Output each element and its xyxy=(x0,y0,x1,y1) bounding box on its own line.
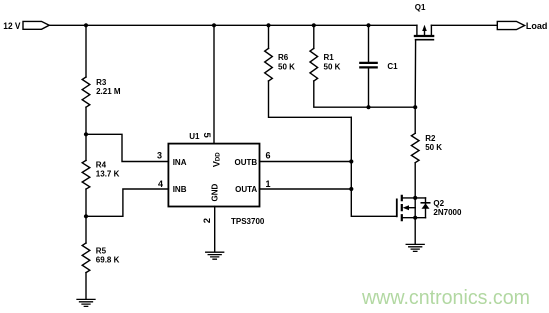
wire R1 top lead xyxy=(313,25,315,48)
wire C1 top lead xyxy=(368,25,370,62)
wire Q2 vertical drain-source xyxy=(414,198,416,218)
svg-text:R1: R1 xyxy=(324,53,335,62)
svg-text:50 K: 50 K xyxy=(324,63,341,72)
ground below U1 pin 2 xyxy=(206,252,224,259)
wire R3 bottom lead xyxy=(85,107,87,134)
resistor R2 xyxy=(411,133,419,162)
wire VDD pin 5 xyxy=(213,25,215,143)
wire C1 bottom lead xyxy=(368,68,370,107)
IC U1 TPS3700 body xyxy=(168,144,259,207)
svg-text:C1: C1 xyxy=(387,62,398,71)
svg-text:6: 6 xyxy=(266,151,271,161)
wire Q1 gate down xyxy=(414,40,416,108)
wire R5 to ground xyxy=(85,273,87,299)
node 12V input terminal xyxy=(23,21,49,29)
wire R1 bottom rail xyxy=(314,81,415,107)
svg-text:www.cntronics.com: www.cntronics.com xyxy=(361,286,530,309)
junction dots xyxy=(84,23,88,27)
wire R2 bottom to Q2 drain xyxy=(414,163,416,198)
svg-text:13.7 K: 13.7 K xyxy=(96,169,120,178)
wire OUTB pin 6 xyxy=(260,161,352,163)
wire gate node to R2 xyxy=(414,107,416,133)
svg-text:3: 3 xyxy=(157,151,162,161)
svg-text:R2: R2 xyxy=(425,134,436,143)
svg-text:2: 2 xyxy=(202,218,213,223)
node Load output terminal xyxy=(497,21,524,29)
svg-text:2.21 M: 2.21 M xyxy=(96,87,121,96)
resistor R3 xyxy=(82,77,90,107)
wire INA from divider xyxy=(86,134,168,161)
svg-text:50 K: 50 K xyxy=(425,143,442,152)
capacitor C1 xyxy=(360,63,376,68)
svg-text:2N7000: 2N7000 xyxy=(433,208,462,217)
transistor Q2 xyxy=(397,196,430,220)
svg-text:50 K: 50 K xyxy=(278,63,295,72)
svg-text:R5: R5 xyxy=(96,247,107,256)
svg-text:OUTB: OUTB xyxy=(235,158,258,167)
svg-text:1: 1 xyxy=(266,179,271,189)
svg-text:4: 4 xyxy=(158,179,163,189)
svg-text:R4: R4 xyxy=(96,161,107,170)
wire R5 top lead xyxy=(85,216,87,243)
wire R4 bottom lead xyxy=(85,189,87,216)
svg-text:U1: U1 xyxy=(189,132,200,141)
wire OUTA pin 1 xyxy=(260,188,352,190)
resistor R6 xyxy=(265,48,273,81)
wire R3 top lead xyxy=(85,25,87,77)
svg-text:12 V: 12 V xyxy=(3,21,20,31)
svg-text:INB: INB xyxy=(173,185,187,194)
resistor R4 xyxy=(82,160,90,189)
wire main 12V rail xyxy=(49,24,417,26)
wire R6 top lead xyxy=(268,25,270,48)
wire OUT net down to Q2 gate xyxy=(351,117,397,216)
svg-text:TPS3700: TPS3700 xyxy=(231,217,265,226)
resistor R1 xyxy=(310,48,318,81)
wire GND pin 2 xyxy=(214,207,216,252)
resistor R5 xyxy=(82,243,90,273)
svg-text:Load: Load xyxy=(526,21,548,31)
wire Q2 source to ground xyxy=(414,218,416,244)
svg-text:69.8 K: 69.8 K xyxy=(96,255,120,264)
svg-text:5: 5 xyxy=(201,132,212,138)
svg-text:Q1: Q1 xyxy=(415,3,426,12)
svg-text:R3: R3 xyxy=(96,78,107,87)
ground below Q2 xyxy=(406,244,424,251)
wire R4 top lead xyxy=(85,134,87,160)
ground below R5 xyxy=(77,299,95,306)
transistor Q1 xyxy=(415,25,434,40)
svg-text:INA: INA xyxy=(173,158,187,167)
svg-text:GND: GND xyxy=(211,183,220,201)
wire INB from divider xyxy=(86,189,168,216)
svg-text:R6: R6 xyxy=(278,53,289,62)
svg-text:OUTA: OUTA xyxy=(235,185,257,194)
wire drain rail to Load xyxy=(431,24,497,26)
wire R6 bottom to OUTB net xyxy=(269,81,352,117)
